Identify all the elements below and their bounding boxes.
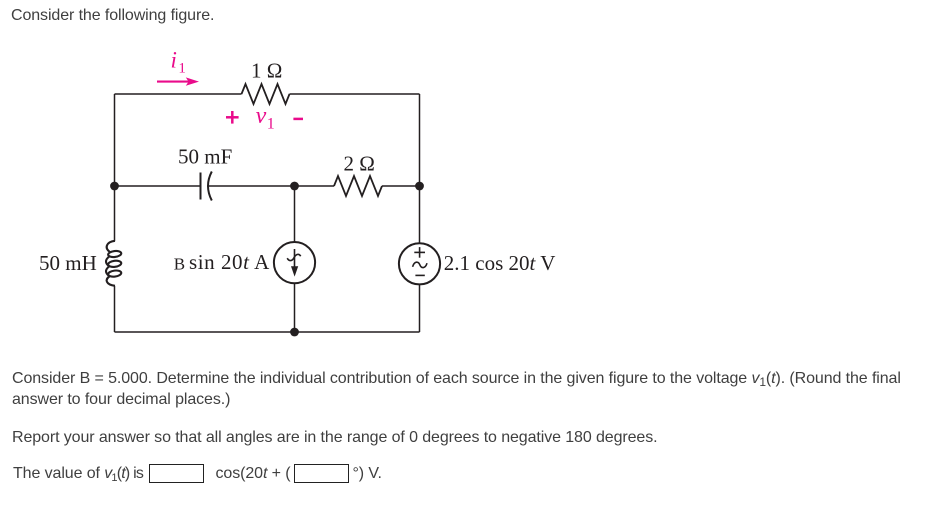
node dot right-middle bbox=[415, 182, 424, 191]
current source I1 circle bbox=[274, 242, 315, 283]
node dot bottom-middle bbox=[290, 328, 299, 337]
voltage source minus bbox=[415, 274, 424, 276]
answer unit text bbox=[353, 463, 382, 484]
svg-text:1: 1 bbox=[267, 116, 275, 133]
capacitor C (50 mF) plates bbox=[201, 172, 212, 201]
svg-text:2 Ω: 2 Ω bbox=[344, 152, 375, 176]
wire middle-center (capacitor to node) bbox=[208, 185, 334, 187]
answer input box 2 bbox=[294, 464, 349, 483]
component value labels (black serif) bbox=[39, 59, 555, 276]
wire left lower bbox=[114, 286, 116, 332]
wire right upper bbox=[419, 94, 421, 243]
svg-text:1 Ω: 1 Ω bbox=[251, 59, 282, 83]
svg-text:50 mF: 50 mF bbox=[178, 145, 232, 169]
svg-text:i: i bbox=[171, 48, 177, 73]
svg-text:1: 1 bbox=[178, 61, 186, 77]
current direction arrow (pink) bbox=[157, 81, 191, 83]
current label i1 (pink) bbox=[171, 48, 275, 133]
svg-text:v: v bbox=[256, 103, 267, 129]
answer line text bbox=[13, 463, 143, 484]
node dot center-middle bbox=[290, 182, 299, 191]
wire middle-right segment bbox=[382, 185, 420, 187]
wire top-left segment bbox=[115, 93, 242, 95]
resistor R (2 ohm) zigzag bbox=[334, 176, 382, 196]
wire middle branch lower bbox=[294, 283, 296, 332]
svg-text:B: B bbox=[174, 255, 185, 274]
voltage source sine bbox=[413, 262, 427, 267]
question paragraph bbox=[12, 368, 924, 410]
wire left upper bbox=[114, 94, 116, 241]
voltage source V1 circle bbox=[399, 243, 440, 284]
wire bottom bbox=[115, 331, 420, 333]
svg-text:2.1 cos 20t V: 2.1 cos 20t V bbox=[444, 251, 556, 275]
plus sign of v1 (pink) bbox=[226, 111, 303, 124]
report instruction line bbox=[12, 427, 657, 448]
voltage source plus bbox=[413, 247, 427, 275]
wire top-right segment bbox=[290, 93, 420, 95]
inductor L (50 mH) coil bbox=[106, 241, 122, 286]
wire middle branch upper bbox=[294, 186, 296, 242]
current source arrow bbox=[287, 249, 301, 270]
answer formula text bbox=[216, 463, 291, 484]
wire right lower bbox=[419, 284, 421, 332]
svg-text:50 mH: 50 mH bbox=[39, 251, 97, 275]
svg-text:sin 20t A: sin 20t A bbox=[189, 250, 270, 274]
answer input box 1 bbox=[149, 464, 204, 483]
wire middle-left (to capacitor) bbox=[115, 185, 201, 187]
node dot left-middle bbox=[110, 182, 119, 191]
resistor R (1 ohm) zigzag bbox=[242, 84, 290, 104]
minus sign of v1 (pink) bbox=[293, 118, 303, 121]
title text bbox=[11, 5, 214, 26]
